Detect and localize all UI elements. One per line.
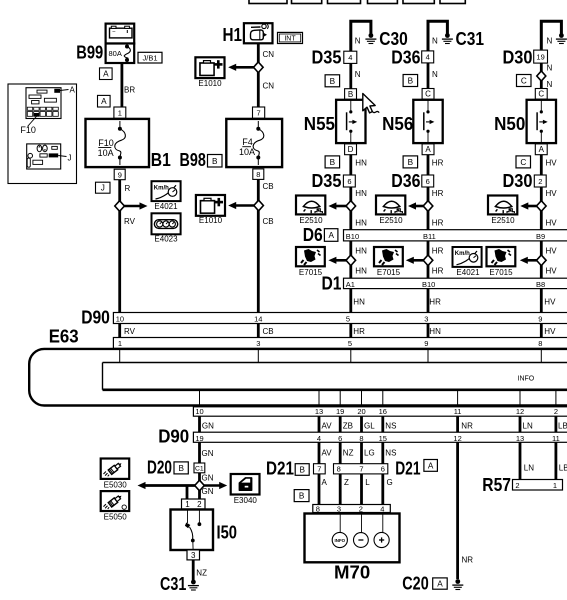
svg-text:B98: B98: [180, 150, 206, 170]
svg-text:E7015: E7015: [489, 268, 513, 277]
svg-text:B10: B10: [422, 280, 435, 289]
svg-text:HR: HR: [432, 267, 444, 276]
svg-text:E7015: E7015: [377, 268, 401, 277]
svg-text:F10: F10: [20, 125, 36, 135]
svg-text:N: N: [355, 70, 361, 79]
svg-text:C30: C30: [379, 29, 408, 49]
svg-text:19: 19: [536, 52, 544, 61]
svg-text:5: 5: [346, 314, 350, 323]
svg-text:16: 16: [379, 407, 387, 416]
svg-text:F4: F4: [242, 137, 253, 147]
svg-text:HV: HV: [544, 298, 556, 307]
svg-text:2: 2: [538, 177, 542, 186]
svg-text:LG: LG: [364, 449, 375, 458]
svg-text:R: R: [125, 184, 131, 193]
svg-text:9: 9: [118, 170, 122, 179]
svg-text:C: C: [538, 90, 544, 99]
svg-text:LN: LN: [523, 421, 533, 430]
svg-text:10A: 10A: [239, 147, 255, 157]
svg-text:A: A: [437, 580, 443, 589]
svg-text:A: A: [322, 478, 328, 487]
svg-text:N: N: [432, 37, 438, 46]
svg-text:L: L: [365, 478, 370, 487]
svg-text:1: 1: [118, 109, 122, 118]
svg-text:80A: 80A: [109, 49, 122, 58]
svg-text:NS: NS: [385, 449, 396, 458]
svg-text:HV: HV: [544, 327, 556, 336]
svg-text:NZ: NZ: [196, 569, 207, 578]
svg-text:N: N: [547, 80, 553, 89]
svg-text:9: 9: [424, 339, 428, 348]
svg-text:11: 11: [552, 434, 560, 443]
svg-text:D21: D21: [395, 459, 420, 479]
svg-text:3: 3: [337, 504, 341, 513]
svg-text:HR: HR: [432, 247, 444, 256]
svg-text:A1: A1: [346, 280, 355, 289]
svg-text:E2510: E2510: [491, 216, 515, 225]
svg-text:Km/h: Km/h: [154, 185, 169, 191]
svg-text:11: 11: [454, 407, 462, 416]
svg-text:N55: N55: [304, 114, 335, 134]
svg-text:NZ: NZ: [343, 449, 354, 458]
svg-text:D35: D35: [312, 48, 342, 68]
svg-text:−: −: [112, 30, 116, 36]
svg-text:R57: R57: [482, 475, 511, 495]
svg-text:A: A: [101, 97, 107, 106]
svg-text:B: B: [348, 90, 353, 99]
svg-text:E7015: E7015: [299, 268, 323, 277]
svg-text:GN: GN: [202, 474, 214, 483]
svg-text:CN: CN: [263, 50, 275, 59]
svg-text:D21: D21: [266, 459, 294, 479]
svg-text:A: A: [103, 70, 109, 79]
svg-text:4: 4: [348, 53, 352, 62]
svg-text:3: 3: [424, 314, 428, 323]
svg-text:HN: HN: [429, 327, 441, 336]
svg-text:N: N: [547, 64, 553, 73]
svg-text:B: B: [299, 492, 305, 501]
svg-text:GL: GL: [364, 421, 375, 430]
svg-text:D35: D35: [312, 171, 342, 191]
svg-text:E4023: E4023: [154, 235, 178, 244]
svg-text:C: C: [520, 158, 526, 167]
svg-text:NS: NS: [385, 421, 396, 430]
svg-text:D90: D90: [81, 307, 110, 327]
svg-text:B11: B11: [423, 232, 436, 241]
svg-text:AV: AV: [322, 421, 333, 430]
svg-text:C1: C1: [195, 466, 204, 473]
svg-text:RV: RV: [124, 327, 136, 336]
svg-text:B: B: [330, 158, 336, 167]
svg-text:I50: I50: [217, 523, 238, 543]
svg-text:BR: BR: [124, 86, 135, 95]
svg-text:E3040: E3040: [234, 496, 258, 505]
svg-text:A: A: [428, 461, 434, 470]
svg-text:N: N: [547, 37, 553, 46]
svg-text:HN: HN: [353, 298, 365, 307]
svg-text:B: B: [330, 77, 336, 86]
svg-text:C: C: [425, 90, 431, 99]
svg-text:HN: HN: [355, 247, 367, 256]
svg-text:J: J: [101, 184, 105, 193]
svg-text:AV: AV: [322, 449, 333, 458]
svg-text:B1: B1: [151, 150, 171, 170]
svg-text:6: 6: [426, 177, 430, 186]
svg-text:13: 13: [315, 407, 323, 416]
svg-text:J: J: [68, 154, 72, 163]
svg-text:E5030: E5030: [104, 480, 128, 489]
svg-text:E4021: E4021: [154, 202, 178, 211]
svg-text:CB: CB: [263, 327, 274, 336]
svg-text:HR: HR: [432, 219, 444, 228]
svg-text:8: 8: [359, 434, 363, 443]
svg-text:CB: CB: [263, 217, 274, 226]
svg-text:D36: D36: [391, 171, 420, 191]
svg-text:HN: HN: [355, 219, 367, 228]
svg-text:2: 2: [359, 504, 363, 513]
svg-text:12: 12: [453, 434, 461, 443]
svg-text:D: D: [348, 145, 354, 154]
svg-text:GN: GN: [202, 449, 214, 458]
svg-text:3: 3: [256, 339, 260, 348]
svg-text:D30: D30: [503, 48, 533, 68]
svg-text:D6: D6: [303, 225, 323, 245]
svg-text:10: 10: [195, 407, 203, 416]
svg-text:B9: B9: [536, 232, 545, 241]
svg-text:2: 2: [197, 500, 202, 509]
svg-text:1: 1: [185, 500, 190, 509]
svg-text:19: 19: [195, 434, 203, 443]
svg-text:E4021: E4021: [456, 268, 480, 277]
svg-text:GN: GN: [202, 487, 214, 496]
svg-text:E5050: E5050: [104, 512, 128, 521]
svg-text:E1010: E1010: [199, 216, 223, 225]
svg-text:10A: 10A: [98, 148, 114, 158]
svg-text:D30: D30: [503, 171, 533, 191]
svg-text:6: 6: [338, 434, 342, 443]
svg-text:A: A: [539, 145, 545, 154]
svg-text:LB: LB: [558, 421, 567, 430]
svg-text:1: 1: [553, 481, 557, 490]
svg-text:6: 6: [347, 177, 351, 186]
svg-text:2: 2: [515, 481, 519, 490]
svg-text:H1: H1: [223, 25, 243, 45]
svg-text:HV: HV: [546, 159, 558, 168]
svg-text:10: 10: [116, 314, 124, 323]
svg-text:C20: C20: [402, 574, 428, 594]
svg-text:HV: HV: [546, 219, 558, 228]
svg-text:8: 8: [316, 504, 320, 513]
svg-text:4: 4: [317, 434, 321, 443]
svg-text:Km/h: Km/h: [455, 251, 470, 257]
svg-text:N50: N50: [494, 114, 525, 134]
svg-text:19: 19: [336, 407, 344, 416]
svg-text:HR: HR: [432, 189, 444, 198]
svg-text:F10: F10: [98, 138, 114, 148]
svg-text:C31: C31: [160, 574, 186, 594]
svg-text:E2510: E2510: [379, 216, 403, 225]
svg-text:RV: RV: [124, 217, 136, 226]
svg-text:20: 20: [357, 407, 365, 416]
svg-text:J/B1: J/B1: [142, 53, 157, 62]
svg-text:HR: HR: [432, 159, 444, 168]
svg-text:N56: N56: [382, 114, 413, 134]
svg-text:A: A: [328, 231, 334, 240]
svg-text:NR: NR: [462, 556, 474, 565]
svg-text:INFO: INFO: [335, 538, 346, 543]
svg-text:Z: Z: [344, 478, 349, 487]
svg-text:B99: B99: [76, 43, 103, 63]
svg-text:E2510: E2510: [299, 216, 323, 225]
svg-text:HR: HR: [353, 327, 365, 336]
svg-text:HV: HV: [546, 247, 558, 256]
svg-text:8: 8: [256, 170, 260, 179]
svg-text:HN: HN: [355, 267, 367, 276]
svg-text:E63: E63: [49, 327, 79, 347]
svg-text:CN: CN: [263, 82, 275, 91]
svg-text:HV: HV: [546, 189, 558, 198]
svg-text:9: 9: [538, 314, 542, 323]
svg-text:4: 4: [426, 53, 430, 62]
svg-text:HR: HR: [429, 298, 441, 307]
svg-text:CB: CB: [263, 182, 274, 191]
svg-text:NR: NR: [461, 421, 473, 430]
svg-text:8: 8: [337, 465, 341, 474]
svg-text:HN: HN: [355, 159, 367, 168]
svg-text:8: 8: [538, 339, 542, 348]
svg-text:M70: M70: [334, 563, 370, 583]
svg-text:6: 6: [381, 465, 385, 474]
svg-text:G: G: [387, 478, 393, 487]
svg-text:15: 15: [379, 434, 387, 443]
svg-text:7: 7: [257, 109, 261, 118]
svg-text:12: 12: [516, 407, 524, 416]
svg-text:13: 13: [516, 434, 524, 443]
svg-text:LN: LN: [524, 464, 534, 473]
svg-text:3: 3: [191, 551, 196, 560]
svg-text:C31: C31: [456, 29, 485, 49]
svg-text:B: B: [299, 466, 305, 475]
svg-text:B: B: [212, 157, 218, 166]
svg-text:LB: LB: [559, 464, 567, 473]
svg-text:14: 14: [254, 314, 262, 323]
svg-text:D36: D36: [391, 48, 420, 68]
svg-text:ZB: ZB: [343, 421, 353, 430]
svg-text:B: B: [408, 77, 414, 86]
svg-text:A: A: [70, 85, 76, 94]
svg-text:D20: D20: [147, 458, 172, 478]
svg-text:D90: D90: [158, 427, 189, 447]
svg-text:B8: B8: [536, 280, 545, 289]
svg-text:B10: B10: [346, 232, 359, 241]
svg-text:N: N: [432, 70, 438, 79]
svg-text:B: B: [408, 158, 414, 167]
svg-text:4: 4: [380, 504, 384, 513]
svg-text:HN: HN: [355, 189, 367, 198]
svg-text:D1: D1: [322, 274, 342, 294]
svg-text:B: B: [178, 464, 184, 473]
svg-text:INT: INT: [284, 35, 296, 42]
svg-text:C: C: [521, 77, 527, 86]
svg-text:2: 2: [554, 407, 558, 416]
svg-text:5: 5: [348, 339, 352, 348]
svg-text:HV: HV: [546, 267, 558, 276]
svg-text:A: A: [425, 145, 431, 154]
svg-text:7: 7: [359, 465, 363, 474]
svg-text:N: N: [355, 37, 361, 46]
svg-text:7: 7: [317, 465, 321, 474]
svg-text:GN: GN: [202, 421, 214, 430]
svg-text:E1010: E1010: [198, 79, 222, 88]
svg-text:1: 1: [118, 339, 122, 348]
svg-text:INFO: INFO: [518, 376, 535, 383]
